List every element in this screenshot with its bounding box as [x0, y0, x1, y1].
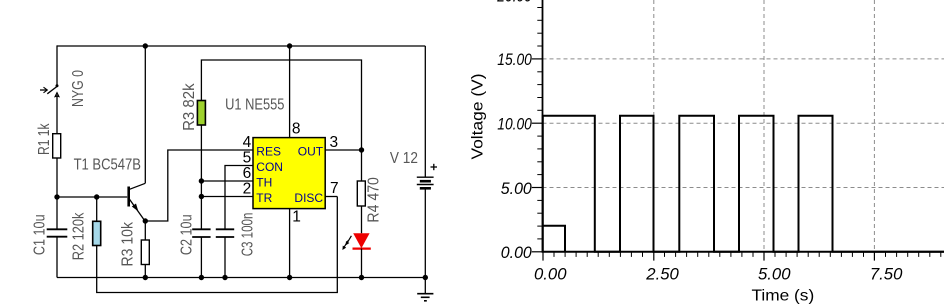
resistor R3 10k — [141, 240, 149, 265]
svg-text:20.00: 20.00 — [496, 0, 532, 6]
junction pin8-to-rail — [287, 43, 292, 48]
wire OUT — [325, 149, 361, 151]
switch NYG 0 — [40, 84, 59, 133]
resistor R3 82k — [197, 101, 205, 126]
ground — [417, 294, 433, 301]
capacitor C1 — [47, 229, 68, 236]
chart x major ticks — [543, 252, 874, 261]
resistor R4 — [357, 181, 365, 206]
svg-text:R1 1k: R1 1k — [36, 123, 53, 155]
wire R1 to node — [56, 158, 58, 197]
wire DISC — [325, 196, 337, 198]
svg-text:0.00: 0.00 — [501, 244, 533, 262]
svg-text:15.00: 15.00 — [497, 51, 532, 69]
chart y-axis — [542, 0, 544, 253]
wire R3 82k top to OUT — [201, 60, 361, 150]
wire R3 82k bottom to C2 — [200, 125, 202, 229]
svg-text:C3 100n: C3 100n — [240, 213, 257, 257]
wire R2 top — [96, 197, 98, 221]
wire R2 bottom to lower rail — [97, 197, 338, 293]
svg-text:NYG 0: NYG 0 — [70, 70, 87, 107]
svg-text:TR: TR — [256, 191, 272, 205]
junction emitter node — [143, 218, 148, 223]
svg-text:R2 120k: R2 120k — [70, 212, 87, 260]
junction collector-to-rail — [143, 43, 148, 48]
wire left drop to switch — [56, 45, 58, 85]
wire RES path — [145, 150, 253, 221]
svg-text:3: 3 — [330, 134, 339, 151]
svg-text:T1 BC547B: T1 BC547B — [74, 157, 141, 174]
LED D1 — [342, 233, 370, 277]
chart gridlines — [543, 0, 944, 252]
junction TH node — [199, 178, 204, 183]
svg-text:5.00: 5.00 — [501, 180, 533, 198]
svg-text:C2 10u: C2 10u — [178, 214, 195, 255]
junction TR node — [199, 194, 204, 199]
wire C1 down — [56, 197, 58, 229]
wire TH — [201, 180, 253, 182]
junction battery-ground — [423, 275, 428, 280]
wire pin1 — [289, 209, 291, 278]
junction LED-ground — [359, 275, 364, 280]
junction R1-C1 node — [54, 194, 59, 199]
IC U1 NE555 body — [253, 138, 325, 209]
svg-text:7: 7 — [330, 180, 339, 197]
svg-text:DISC: DISC — [294, 191, 323, 205]
svg-text:R3 10k: R3 10k — [119, 221, 136, 266]
wire emitter to R3 10k — [144, 221, 146, 240]
svg-text:7.50: 7.50 — [870, 265, 903, 283]
junction pin1-ground — [287, 275, 292, 280]
waveform square wave trace — [543, 116, 944, 252]
svg-text:C1 10u: C1 10u — [31, 214, 48, 255]
capacitor C2 — [192, 229, 210, 237]
svg-text:R3 82k: R3 82k — [181, 82, 198, 130]
chart x minor ticks — [554, 252, 941, 257]
svg-text:CON: CON — [256, 160, 283, 174]
junction R2-base node — [94, 194, 99, 199]
svg-text:Voltage (V): Voltage (V) — [470, 73, 487, 159]
chart y minor ticks — [537, 8, 542, 239]
junction OUT node — [359, 147, 364, 152]
svg-text:V 12: V 12 — [390, 150, 418, 167]
svg-text:5.00: 5.00 — [758, 265, 791, 283]
waveform initial 2V step — [543, 226, 565, 252]
capacitor C3 — [216, 229, 234, 237]
wire node row to base — [57, 196, 127, 198]
svg-text:8: 8 — [292, 121, 301, 138]
svg-text:2: 2 — [243, 181, 252, 198]
svg-text:U1 NE555: U1 NE555 — [225, 96, 284, 113]
junction C2-ground — [199, 275, 204, 280]
svg-text:Time (s): Time (s) — [752, 288, 815, 304]
svg-text:10.00: 10.00 — [497, 116, 532, 134]
svg-text:6: 6 — [243, 165, 252, 182]
svg-text:0.00: 0.00 — [534, 265, 567, 283]
resistor R1 — [53, 134, 61, 158]
svg-text:5: 5 — [243, 150, 252, 167]
chart y major ticks — [532, 59, 543, 252]
svg-text:2.50: 2.50 — [645, 265, 679, 283]
junction R3-ground — [143, 275, 148, 280]
junction C3-ground — [222, 275, 227, 280]
wire pin8 — [289, 46, 291, 138]
svg-text:1: 1 — [292, 209, 301, 226]
svg-text:RES: RES — [256, 144, 281, 158]
battery V 12 — [417, 46, 437, 294]
svg-text:4: 4 — [243, 134, 252, 151]
resistor R2 — [93, 221, 101, 245]
svg-text:TH: TH — [256, 175, 272, 189]
wire CON to C3 — [225, 166, 253, 230]
wire TR — [201, 196, 253, 198]
svg-text:R4 470: R4 470 — [365, 177, 382, 223]
ground rail — [57, 277, 425, 279]
wire top rail — [57, 45, 425, 47]
svg-text:OUT: OUT — [298, 144, 324, 158]
chart x-axis — [543, 251, 944, 253]
transistor T1 — [129, 46, 146, 222]
wire OUT node to R4 — [361, 150, 363, 181]
